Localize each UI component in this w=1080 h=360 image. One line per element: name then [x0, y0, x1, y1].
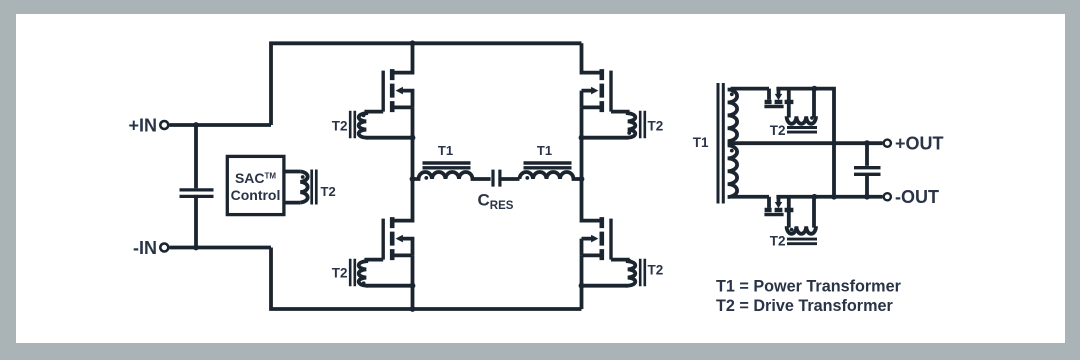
node junction Q1 source / T2	[410, 135, 416, 141]
transformer T2 SAC polarity dot	[301, 175, 305, 179]
transformer T2 Q4 secondary coil	[582, 260, 636, 286]
transistor Q6 gate bar	[764, 213, 783, 216]
transformer T1 right polarity dot	[525, 176, 529, 180]
transformer T1 left core	[423, 163, 471, 168]
transistor Q2 channel dashes	[599, 69, 604, 112]
node -OUT terminal	[884, 193, 891, 200]
transistor Q1 channel dashes	[390, 69, 395, 112]
capacitor C-RES plates	[493, 170, 500, 187]
svg-text:T1 = Power Transformer: T1 = Power Transformer	[716, 278, 902, 296]
node junction Q2 source / T2	[579, 135, 585, 141]
wire Q3 source to bottom rail	[411, 255, 415, 309]
node junction input cap bottom	[193, 245, 199, 251]
transformer T2 Q1 core	[350, 111, 355, 138]
node junction Q4 source / T2	[579, 283, 585, 289]
capacitor C-IN plates	[180, 190, 214, 197]
transistor Q5 gate bar	[764, 105, 783, 108]
node -IN terminal	[160, 244, 168, 252]
transistor Q3 body arrow wire	[402, 239, 413, 256]
transformer T2 Q1 secondary coil	[359, 112, 413, 138]
transistor Q6 body arrow wire	[777, 197, 781, 202]
svg-text:T2: T2	[770, 233, 786, 248]
svg-text:T1: T1	[438, 143, 453, 158]
wire Q5 source riser / T2 lead	[787, 89, 791, 118]
wire Q6 node to -OUT	[776, 195, 882, 199]
transistor Q1 source	[395, 106, 413, 110]
svg-text:T2: T2	[332, 118, 348, 133]
svg-text:+IN: +IN	[128, 115, 157, 135]
transistor Q6 left terminal	[767, 197, 771, 208]
transistor Q3 arrowhead	[396, 235, 403, 243]
wire C-RES to right winding	[502, 177, 520, 181]
node junction top rail / Q1 drain	[410, 40, 416, 46]
node junction Q5 / bus wire	[812, 86, 818, 92]
transistor Q5 left terminal	[767, 89, 771, 100]
node junction bus / -OUT wire	[831, 194, 837, 200]
transformer T1 right core	[524, 163, 572, 168]
transistor Q4 arrowhead	[591, 235, 598, 243]
node junction Q6 / -OUT wire	[812, 194, 818, 200]
transformer T2 Q4 core	[640, 259, 645, 286]
wire Q5 node to bus	[776, 89, 834, 197]
transformer T2 Q3 polarity dot	[362, 281, 366, 285]
transistor Q3 channel dashes	[390, 217, 395, 260]
wire bottom rail	[271, 248, 582, 310]
transistor Q2 source	[582, 106, 600, 110]
transformer T2 Q2 polarity dot	[627, 131, 631, 135]
transformer T2 Q5 core	[787, 128, 817, 133]
capacitor C-OUT plates	[854, 168, 881, 175]
transistor Q4 gate bar	[609, 219, 612, 260]
wire -IN to bottom rail corner	[170, 246, 272, 250]
node B junction right bridge midpoint	[579, 176, 585, 182]
wire top rail	[271, 43, 582, 125]
svg-text:-OUT: -OUT	[895, 187, 939, 207]
svg-text:T2: T2	[332, 265, 348, 280]
transformer T2 SAC core	[312, 170, 317, 205]
transformer T2 Q5 polarity dot	[810, 116, 814, 120]
transformer T2 Q2 secondary coil	[582, 112, 636, 138]
svg-text:Control: Control	[231, 187, 281, 203]
svg-text:T2: T2	[770, 123, 786, 138]
transistor Q1 body arrow wire	[402, 91, 413, 108]
transformer T2 Q1 polarity dot	[362, 114, 366, 118]
transformer T2 Q2 core	[640, 111, 645, 138]
transistor Q2 body arrow wire	[582, 91, 593, 108]
transistor Q5 body arrow wire	[777, 89, 781, 94]
svg-text:T2: T2	[648, 118, 664, 133]
wire +IN to top rail corner	[170, 123, 272, 127]
wire Q2 source down to node B	[580, 107, 584, 179]
inductor T1 right primary winding	[520, 172, 582, 179]
wire T1 center tap to +OUT	[728, 141, 883, 145]
wire Q6 source riser / T2 lead	[787, 197, 791, 228]
transformer T1 output core	[718, 83, 723, 204]
svg-text:-IN: -IN	[133, 238, 157, 258]
node junction input cap top	[193, 122, 199, 128]
transistor Q1 gate bar	[382, 71, 385, 112]
node +OUT terminal	[884, 140, 891, 147]
wire input cap leads	[194, 125, 198, 248]
node junction Q3 source / T2	[410, 283, 416, 289]
node junction C-OUT top	[864, 140, 870, 146]
transformer T2 SAC primary coil	[300, 172, 307, 203]
transformer T2 Q3 core	[350, 259, 355, 286]
transistor Q2 gate bar	[609, 71, 612, 112]
transformer T1 secondary top polarity dot	[730, 92, 734, 96]
node junction Q3 source / bottom rail	[410, 306, 416, 312]
transistor Q4 body arrow wire	[582, 239, 593, 256]
node A junction left bridge midpoint	[410, 176, 416, 182]
transformer T2 Q3 secondary coil	[359, 260, 413, 286]
transformer T2 Q6 polarity dot	[790, 228, 794, 232]
node junction C-OUT bottom	[864, 194, 870, 200]
wire Q1 source down to node A	[411, 107, 415, 179]
transistor Q1 drain	[395, 43, 413, 72]
transistor Q2 arrowhead	[591, 87, 598, 95]
svg-text:T2: T2	[321, 184, 336, 199]
svg-text:T1: T1	[537, 143, 552, 158]
svg-text:T1: T1	[693, 135, 709, 150]
transistor Q3 gate bar	[382, 219, 385, 260]
transistor Q5 channel dashes	[765, 100, 794, 104]
SAC control block	[227, 156, 284, 214]
transistor Q3 drain	[395, 179, 413, 221]
svg-text:T2 = Drive Transformer: T2 = Drive Transformer	[716, 297, 893, 315]
transistor Q4 drain	[582, 179, 600, 221]
transistor Q4 channel dashes	[599, 217, 604, 260]
wire T1 secondary top lead	[731, 87, 770, 91]
transformer T1 secondary bottom polarity dot	[730, 149, 734, 153]
transistor Q5 arrowhead	[775, 94, 782, 100]
transistor Q3 source	[395, 253, 413, 257]
wire SAC primary leads	[284, 172, 300, 203]
transformer T2 Q5 coil	[787, 89, 816, 124]
svg-text:T2: T2	[648, 263, 664, 278]
transformer T2 Q4 polarity dot	[627, 259, 631, 263]
transformer T2 Q6 core	[787, 239, 817, 244]
node +IN terminal	[160, 121, 168, 129]
transformer T1 secondary bottom winding	[728, 145, 738, 197]
transistor Q2 drain	[582, 43, 600, 72]
transformer T1 left polarity dot	[424, 176, 428, 180]
wire T1 secondary bottom lead	[731, 195, 770, 199]
svg-text:+OUT: +OUT	[895, 134, 944, 154]
capacitor C-OUT leads	[865, 143, 869, 197]
transformer T1 secondary top winding	[728, 90, 738, 142]
transformer T2 Q6 coil	[787, 197, 816, 234]
wire Q4 source to bottom rail end	[580, 255, 584, 309]
transistor Q6 arrowhead	[775, 202, 782, 208]
transistor Q1 arrowhead	[396, 87, 403, 95]
transistor Q6 channel dashes	[765, 208, 794, 212]
transistor Q4 source	[582, 253, 600, 257]
inductor T1 left primary winding	[413, 172, 491, 179]
